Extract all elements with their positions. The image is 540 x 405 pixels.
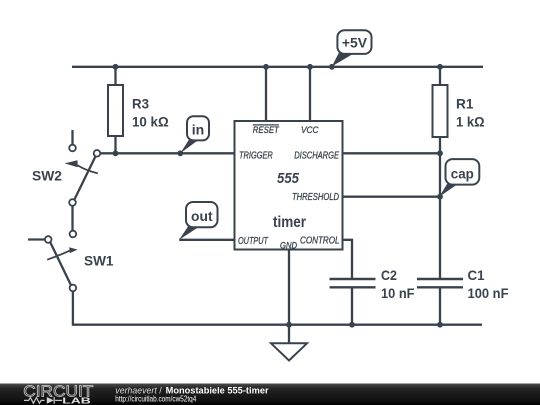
svg-text:1 kΩ: 1 kΩ	[456, 114, 485, 130]
svg-text:in: in	[192, 122, 205, 138]
svg-text:R1: R1	[456, 96, 474, 112]
svg-text:CONTROL: CONTROL	[300, 235, 340, 246]
svg-text:C1: C1	[468, 267, 485, 283]
svg-text:out: out	[191, 208, 213, 224]
svg-text:TRIGGER: TRIGGER	[239, 151, 273, 162]
svg-text:C2: C2	[381, 267, 397, 283]
svg-text:DISCHARGE: DISCHARGE	[294, 151, 339, 162]
svg-text:GND: GND	[280, 240, 297, 250]
svg-text:RESET: RESET	[253, 125, 280, 136]
svg-text:10 kΩ: 10 kΩ	[132, 114, 169, 130]
svg-text:555: 555	[277, 170, 300, 187]
svg-text:10 nF: 10 nF	[381, 285, 415, 301]
svg-text:+5V: +5V	[342, 34, 368, 50]
svg-text:SW2: SW2	[32, 168, 62, 184]
svg-text:LAB: LAB	[62, 395, 91, 405]
svg-text:VCC: VCC	[301, 125, 319, 136]
svg-text:http://circuitlab.com/cw52tq4: http://circuitlab.com/cw52tq4	[115, 393, 196, 403]
svg-text:100 nF: 100 nF	[468, 285, 509, 301]
svg-text:R3: R3	[132, 96, 149, 112]
svg-text:OUTPUT: OUTPUT	[238, 236, 269, 247]
svg-text:timer: timer	[273, 214, 306, 231]
svg-text:THRESHOLD: THRESHOLD	[292, 192, 339, 203]
svg-text:cap: cap	[451, 165, 474, 181]
svg-text:SW1: SW1	[84, 253, 114, 269]
